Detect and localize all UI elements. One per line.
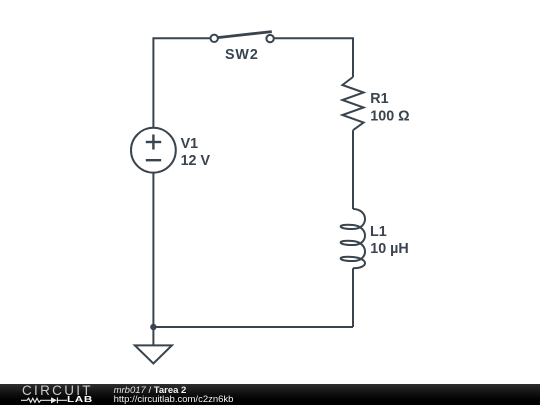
svg-text:10 µH: 10 µH	[370, 241, 408, 257]
voltage source V1	[131, 128, 210, 173]
switch SW2	[211, 32, 274, 64]
CircuitLab logo text CIRCUIT	[22, 383, 93, 398]
wire left vertical below V1	[152, 173, 154, 327]
svg-text:SW2: SW2	[225, 47, 259, 63]
svg-text:R1: R1	[370, 91, 388, 107]
node junction dot	[150, 324, 156, 330]
wire top-left horizontal	[153, 38, 210, 128]
svg-text:L1: L1	[370, 224, 387, 240]
footer caption	[114, 387, 234, 405]
CircuitLab logo text LAB	[67, 395, 93, 404]
svg-text:12 V: 12 V	[181, 153, 211, 169]
wire right vertical between R1 and L1	[352, 130, 354, 209]
ground	[135, 327, 172, 364]
footer bar	[0, 384, 540, 405]
CircuitLab logo resistor-diode line	[21, 396, 67, 405]
wire bottom horizontal	[153, 326, 353, 328]
wire right vertical below L1	[352, 268, 354, 327]
wire top-right horizontal	[274, 38, 353, 77]
inductor L1	[341, 209, 409, 268]
resistor R1	[342, 77, 409, 130]
svg-text:100 Ω: 100 Ω	[370, 108, 409, 124]
svg-text:V1: V1	[181, 136, 199, 152]
